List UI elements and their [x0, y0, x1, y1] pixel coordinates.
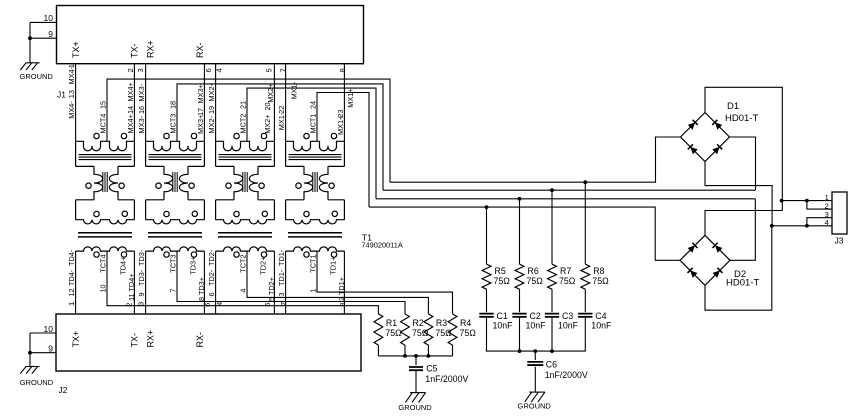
polarity dot T1 col3 TCT — [234, 252, 239, 257]
svg-text:R2: R2 — [413, 318, 424, 328]
wire J3 pin4 — [772, 225, 832, 227]
polarity dot T1 col2 secondary right — [192, 211, 197, 216]
svg-text:RX-: RX- — [195, 42, 205, 58]
wire MCT4 center tap (T1 pin 15) — [107, 79, 390, 182]
wire J3 pin1 — [782, 200, 832, 202]
polarity dot choke col1 right — [119, 183, 124, 188]
ground (J1) — [20, 63, 39, 70]
svg-text:8 TD3+: 8 TD3+ — [197, 277, 206, 301]
svg-text:9: 9 — [48, 29, 53, 39]
wire R8 to C4 — [584, 289, 586, 312]
svg-text:75Ω: 75Ω — [527, 276, 544, 286]
resistor R5 — [486, 207, 488, 264]
wire TD3+ (T1 pin 8 to J2 pin 6) — [203, 251, 205, 314]
transformer T1 section 4 core — [289, 154, 342, 156]
wire MX4- (J1 pin 1 to T1 pin 13) — [75, 64, 77, 142]
svg-text:TX+: TX+ — [71, 41, 81, 58]
svg-text:10: 10 — [99, 284, 108, 292]
svg-text:15: 15 — [99, 101, 108, 109]
svg-text:4: 4 — [239, 289, 248, 293]
wire MX2- (J1 pin 4 to T1 pin 19) — [215, 64, 217, 142]
diode D1 bottom-left — [688, 144, 698, 154]
svg-text:10: 10 — [44, 324, 54, 334]
svg-text:16: 16 — [137, 106, 146, 114]
common-mode choke col3 right winding — [249, 166, 258, 199]
polarity dot T1 col3 secondary left — [234, 211, 239, 216]
wire J3 pin3 — [807, 218, 832, 226]
transformer T1 section 2 secondary core — [148, 232, 202, 234]
common-mode choke col3 core — [242, 172, 244, 192]
svg-text:MX1-: MX1- — [277, 112, 286, 130]
svg-text:9: 9 — [137, 292, 146, 296]
svg-text:2 TD1+: 2 TD1+ — [337, 277, 346, 301]
polarity dot choke col3 left — [226, 183, 231, 188]
capacitor C5 — [415, 356, 417, 365]
junction J1 pin9/bus — [28, 36, 32, 40]
wire C3 to rail — [551, 318, 553, 351]
svg-text:TD3+: TD3+ — [188, 257, 197, 275]
polarity dot T1 col1 secondary right — [122, 211, 127, 216]
svg-text:MX3+: MX3+ — [196, 115, 205, 134]
svg-text:TD3-: TD3- — [137, 269, 146, 286]
diode D1 top-right — [712, 120, 722, 130]
svg-text:TCT1: TCT1 — [309, 254, 318, 272]
svg-text:10: 10 — [44, 13, 54, 23]
svg-text:1: 1 — [309, 289, 318, 293]
wire C6 to ground — [534, 367, 536, 392]
transformer T1 section 1 secondary winding — [76, 247, 135, 251]
svg-text:10nF: 10nF — [526, 321, 547, 331]
transformer T1 section 1 secondary box — [76, 199, 94, 201]
wire TCT3 center tap (T1 pin 7) — [177, 251, 405, 314]
wire J2 ground bus — [29, 333, 31, 367]
svg-text:MCT1: MCT1 — [309, 114, 318, 134]
transformer T1 section 2 secondary box — [146, 199, 164, 201]
polarity dot T1 col1 TCT — [94, 252, 99, 257]
common-mode choke col2 left winding — [164, 166, 173, 199]
svg-text:TX+: TX+ — [71, 331, 81, 348]
junction rail/R3 — [427, 354, 431, 358]
J2 pin 10 stub — [30, 332, 56, 334]
wire TD2- (T1 pin 6 to J2 pin 4) — [215, 251, 217, 314]
common-mode choke col1 right winding — [109, 166, 118, 199]
common-mode choke col1 left winding — [94, 166, 103, 199]
diode bridge D2 outline — [680, 235, 730, 285]
svg-text:4: 4 — [825, 218, 829, 227]
wire D1 minus — [705, 162, 772, 226]
svg-text:2: 2 — [126, 68, 135, 72]
ground (C6) — [525, 392, 545, 402]
svg-text:C2: C2 — [530, 311, 541, 321]
svg-text:6: 6 — [204, 68, 213, 72]
diode D1 top-left — [688, 120, 698, 130]
junction rail/C5 — [414, 354, 418, 358]
junction J3 pins 3-4 — [805, 224, 809, 228]
resistor R6 — [519, 199, 521, 264]
svg-text:MX2-: MX2- — [207, 115, 216, 133]
svg-text:GROUND: GROUND — [20, 72, 54, 81]
svg-text:TD2-: TD2- — [207, 249, 216, 266]
wire TD4- (T1 pin 12 to J2 pin 1) — [75, 251, 77, 314]
polarity dot T1 col2 tap — [164, 133, 169, 138]
capacitor C3 — [545, 313, 559, 315]
polarity dot T1 col3 TD+ — [261, 252, 266, 257]
transformer T1 section 4 secondary box — [286, 199, 304, 201]
junction rail/R6 — [518, 349, 522, 353]
svg-text:4: 4 — [215, 68, 224, 72]
wire D1 right to MCT3 — [730, 137, 756, 190]
junction D1+/J3 — [780, 199, 784, 203]
svg-text:75Ω: 75Ω — [592, 276, 609, 286]
transformer T1 section 2 secondary winding — [146, 247, 205, 251]
junction J2 pin9/bus — [28, 351, 32, 355]
resistor R2 — [401, 314, 410, 345]
svg-text:TD3-: TD3- — [137, 249, 146, 266]
wire R6 to C2 — [519, 289, 521, 312]
svg-text:MX4+: MX4+ — [126, 114, 135, 133]
polarity dot T1 col1 tap — [94, 133, 99, 138]
capacitor C1 — [479, 313, 493, 315]
svg-text:5: 5 — [264, 68, 273, 72]
polarity dot T1 col2 TCT — [164, 252, 169, 257]
svg-text:7: 7 — [169, 289, 178, 293]
transformer T1 section 4 secondary core — [288, 232, 342, 234]
wire TD1- (T1 pin 3 to J2 pin 7) — [285, 251, 287, 314]
polarity dot T1 col2 + — [191, 133, 196, 138]
svg-text:17: 17 — [196, 108, 205, 116]
wire J1 ground bus — [29, 22, 31, 62]
J2 pin 9 stub — [30, 352, 56, 354]
diode bridge D1 outline — [681, 113, 730, 162]
svg-text:GROUND: GROUND — [518, 401, 552, 410]
polarity dot choke col2 right — [189, 183, 194, 188]
polarity dot choke col1 left — [86, 183, 91, 188]
svg-text:D1: D1 — [727, 101, 739, 112]
svg-text:MX3-: MX3- — [137, 115, 146, 133]
wire MCT3 center tap (T1 pin 18) — [177, 84, 383, 190]
svg-text:7: 7 — [278, 68, 287, 72]
common-mode choke col4 core — [312, 172, 314, 192]
polarity dot T1 col1 + — [121, 133, 126, 138]
wire MCT3 line to D1 right drop — [383, 189, 756, 191]
transformer T1 section 1 primary winding — [76, 141, 135, 150]
svg-text:1nF/2000V: 1nF/2000V — [425, 374, 468, 384]
svg-text:TD1-: TD1- — [277, 269, 286, 286]
svg-text:TD4+: TD4+ — [118, 257, 127, 275]
svg-text:MCT3: MCT3 — [169, 114, 178, 134]
transformer T1 section 4 primary winding — [286, 141, 345, 150]
wire TD1+ (T1 pin 2 to J2 pin 8) — [343, 251, 345, 314]
svg-text:24: 24 — [309, 101, 318, 109]
wire C4 to rail — [584, 318, 586, 351]
junction MCT3/R7 — [550, 188, 554, 192]
transformer T1 section 3 secondary core — [218, 232, 272, 234]
wire MCT1 center tap (T1 pin 24) — [317, 93, 369, 208]
wire TCT1 center tap (T1 pin 1) — [317, 251, 453, 314]
svg-text:18: 18 — [169, 101, 178, 109]
diode D1 bottom-right — [712, 144, 722, 154]
transformer T1 section 2 core — [149, 154, 202, 156]
svg-text:MX3+: MX3+ — [196, 84, 205, 103]
polarity dot choke col3 right — [259, 183, 264, 188]
wire MX3+ (J1 pin 6 to T1 pin 17) — [203, 64, 205, 142]
wire C2 to rail — [519, 318, 521, 351]
svg-text:6: 6 — [207, 292, 216, 296]
polarity dot T1 col4 tap — [304, 133, 309, 138]
polarity dot choke col4 right — [329, 183, 334, 188]
common-mode choke col4 left winding — [304, 166, 313, 199]
junction J3 pins 1-2 — [805, 199, 809, 203]
svg-text:6: 6 — [203, 303, 212, 307]
svg-text:C5: C5 — [426, 364, 437, 374]
wire R3 to rail — [427, 345, 429, 356]
svg-text:GROUND: GROUND — [398, 403, 432, 412]
polarity dot T1 col2 secondary left — [164, 211, 169, 216]
svg-text:TD2-: TD2- — [207, 269, 216, 286]
transformer T1 section 2 box — [145, 141, 147, 166]
svg-text:3: 3 — [137, 302, 146, 306]
svg-text:1nF/2000V: 1nF/2000V — [545, 370, 588, 380]
svg-text:MX3-: MX3- — [137, 83, 146, 101]
capacitor C4 — [578, 313, 592, 315]
transformer T1 section 3 box — [215, 141, 217, 166]
wire MX2+ (J1 pin 5 to T1 pin 20) — [273, 64, 275, 142]
svg-text:J1: J1 — [57, 90, 66, 100]
svg-text:J3: J3 — [835, 235, 844, 245]
wire MX4+ (J1 pin 2 to T1 pin 14) — [133, 64, 135, 142]
svg-text:C6: C6 — [546, 360, 557, 370]
resistor R3 — [424, 314, 433, 345]
svg-text:749020011A: 749020011A — [361, 240, 402, 249]
polarity dot T1 col3 tap — [234, 133, 239, 138]
diode D2 bottom-left — [688, 268, 698, 278]
svg-text:R6: R6 — [528, 266, 539, 276]
wire D2 minus — [705, 226, 772, 310]
junction rail/C6 — [533, 349, 537, 353]
svg-text:TCT3: TCT3 — [169, 254, 178, 272]
transformer T1 section 3 inner winding — [216, 220, 275, 224]
svg-text:RX+: RX+ — [146, 330, 156, 348]
svg-text:R1: R1 — [386, 318, 397, 328]
svg-text:10nF: 10nF — [558, 321, 579, 331]
common-mode choke col1 core — [102, 172, 104, 192]
junction rail/R2 — [403, 354, 407, 358]
transformer T1 section 3 core — [219, 154, 272, 156]
polarity dot choke col2 left — [156, 183, 161, 188]
svg-text:R7: R7 — [560, 266, 571, 276]
capacitor C6 — [534, 351, 536, 360]
resistor R7 — [551, 190, 553, 264]
svg-text:19: 19 — [207, 106, 216, 114]
junction D1-,D2-/J3 — [770, 224, 774, 228]
diode D2 bottom-right — [712, 268, 722, 278]
polarity dot T1 col4 secondary left — [304, 211, 309, 216]
wire J3 pin2 — [807, 201, 832, 210]
junction MCT2/R6 — [518, 197, 522, 201]
connector J3 — [832, 192, 847, 234]
svg-text:MCT2: MCT2 — [239, 114, 248, 134]
transformer T1 section 3 primary winding — [216, 141, 275, 150]
wire MCT2 center tap (T1 pin 21) — [247, 88, 376, 199]
svg-text:14: 14 — [126, 106, 135, 114]
resistor R4 — [448, 314, 457, 345]
diode D2 top-right — [713, 243, 723, 253]
transformer T1 section 1 core — [79, 154, 132, 156]
svg-text:3: 3 — [136, 68, 145, 72]
svg-text:TCT2: TCT2 — [239, 254, 248, 272]
svg-text:MX4-: MX4- — [67, 66, 76, 84]
svg-text:12: 12 — [67, 288, 76, 296]
polarity dot T1 col4 TD+ — [331, 252, 336, 257]
svg-text:TD1-: TD1- — [277, 249, 286, 266]
svg-text:R5: R5 — [495, 266, 506, 276]
polarity dot T1 col1 TD+ — [121, 252, 126, 257]
junction MCT1/R5 — [485, 205, 489, 209]
resistor R1 — [374, 314, 383, 345]
svg-text:TX-: TX- — [130, 333, 140, 348]
svg-text:MX2+: MX2+ — [266, 83, 275, 102]
polarity dot T1 col1 secondary left — [94, 211, 99, 216]
wire TCT4 center tap (T1 pin 10) — [107, 251, 378, 314]
junction MCT4/R8 — [583, 180, 587, 184]
wire R2 to rail — [404, 345, 406, 356]
wire R5 to C1 — [486, 289, 488, 312]
svg-text:J2: J2 — [58, 385, 67, 395]
wire D2 right to MCT2 — [730, 199, 755, 260]
svg-text:8: 8 — [338, 68, 347, 72]
svg-text:MX4-: MX4- — [67, 101, 76, 119]
wire TD3- (T1 pin 9 to J2 pin 3) — [145, 251, 147, 314]
svg-text:R4: R4 — [460, 318, 471, 328]
svg-text:23: 23 — [336, 110, 345, 118]
transformer T1 section 1 inner winding — [76, 220, 135, 224]
svg-text:R8: R8 — [593, 266, 604, 276]
svg-text:RX-: RX- — [195, 332, 205, 348]
svg-text:HD01-T: HD01-T — [726, 278, 759, 289]
svg-text:MX1-: MX1- — [290, 81, 299, 99]
wire R4 to rail — [452, 345, 454, 356]
wire MX3- (J1 pin 3 to T1 pin 16) — [145, 64, 147, 142]
svg-text:5: 5 — [263, 303, 272, 307]
svg-text:MX4+: MX4+ — [126, 82, 135, 101]
svg-text:4: 4 — [215, 302, 224, 306]
J1 pin 10 stub — [30, 21, 57, 23]
diode D2 top-left — [687, 243, 697, 253]
svg-text:75Ω: 75Ω — [385, 328, 402, 338]
svg-text:75Ω: 75Ω — [559, 276, 576, 286]
common-mode choke col2 core — [172, 172, 174, 192]
svg-text:GROUND: GROUND — [20, 378, 54, 387]
wire MCT1 line to D2 left — [369, 207, 680, 260]
svg-text:MX2-: MX2- — [207, 83, 216, 101]
svg-text:11 TD4+: 11 TD4+ — [127, 273, 136, 301]
wire C1 to rail — [486, 318, 488, 351]
polarity dot T1 col4 secondary right — [332, 211, 337, 216]
svg-text:TD4-: TD4- — [67, 269, 76, 286]
polarity dot T1 col4 TCT — [304, 252, 309, 257]
svg-text:10nF: 10nF — [493, 321, 514, 331]
common-mode choke col4 right winding — [319, 166, 328, 199]
svg-text:C1: C1 — [497, 311, 508, 321]
transformer T1 section 4 inner winding — [286, 220, 345, 224]
transformer T1 section 4 box — [285, 141, 287, 166]
svg-text:1: 1 — [67, 302, 76, 306]
svg-text:21: 21 — [239, 101, 248, 109]
svg-text:7: 7 — [279, 302, 288, 306]
wire C1-C4 bottom rail — [486, 350, 586, 352]
svg-text:10nF: 10nF — [591, 321, 612, 331]
svg-text:13: 13 — [67, 90, 76, 98]
ground (C5) — [405, 393, 425, 403]
J1 pin 9 stub — [30, 37, 57, 39]
svg-text:TD2+: TD2+ — [258, 257, 267, 275]
polarity dot T1 col2 TD+ — [191, 252, 196, 257]
common-mode choke col2 right winding — [179, 166, 188, 199]
svg-text:75Ω: 75Ω — [460, 328, 477, 338]
polarity dot choke col4 left — [296, 183, 301, 188]
polarity dot T1 col3 + — [261, 133, 266, 138]
wire R1-R4 bottom rail — [378, 355, 452, 357]
svg-text:C3: C3 — [562, 311, 573, 321]
junction rail/R7 — [550, 349, 554, 353]
transformer T1 section 1 box — [75, 141, 77, 166]
svg-text:TCT4: TCT4 — [99, 254, 108, 272]
transformer T1 section 4 secondary winding — [286, 247, 345, 251]
polarity dot T1 col3 secondary right — [262, 211, 267, 216]
svg-text:MX1+: MX1+ — [346, 88, 355, 107]
svg-text:MCT4: MCT4 — [99, 114, 108, 134]
wire MX1- (J1 pin 7 to T1 pin 22) — [285, 64, 287, 142]
svg-text:75Ω: 75Ω — [494, 276, 511, 286]
svg-text:R3: R3 — [436, 318, 447, 328]
wire R7 to C3 — [551, 289, 553, 312]
wire C5 to ground — [415, 370, 417, 392]
svg-text:RX+: RX+ — [146, 40, 156, 58]
transformer T1 section 1 secondary core — [78, 232, 132, 234]
connector J1 — [57, 6, 364, 64]
wire D1 plus rail — [705, 87, 782, 235]
svg-text:9: 9 — [48, 344, 53, 354]
connector J2 — [56, 314, 361, 371]
wire TD2+ (T1 pin 5 to J2 pin 5) — [273, 251, 275, 314]
svg-text:22: 22 — [277, 106, 286, 114]
wire MCT2 line to D2 right riser — [376, 198, 755, 200]
svg-text:3: 3 — [277, 292, 286, 296]
svg-text:TD4-: TD4- — [67, 249, 76, 266]
svg-text:8: 8 — [338, 303, 347, 307]
svg-text:C4: C4 — [595, 311, 606, 321]
svg-text:TD1+: TD1+ — [328, 257, 337, 275]
wire TCT2 center tap (T1 pin 4) — [247, 251, 428, 314]
transformer T1 section 3 secondary winding — [216, 247, 275, 251]
common-mode choke col3 left winding — [234, 166, 243, 199]
svg-text:HD01-T: HD01-T — [725, 113, 758, 124]
capacitor C2 — [512, 313, 526, 315]
wire R1 to rail — [377, 345, 379, 356]
transformer T1 section 2 primary winding — [146, 141, 205, 150]
svg-text:TX-: TX- — [130, 43, 140, 58]
svg-text:MX2+: MX2+ — [263, 115, 272, 134]
transformer T1 section 2 inner winding — [146, 220, 205, 224]
wire TD4+ (T1 pin 11 to J2 pin 2) — [133, 251, 135, 314]
wire MX1+ (J1 pin 8 to T1 pin 23) — [343, 64, 345, 142]
transformer T1 section 3 secondary box — [216, 199, 234, 201]
resistor R8 — [584, 182, 586, 264]
wire MCT4 line to D1 left — [390, 137, 681, 182]
ground (J2) — [20, 367, 39, 374]
polarity dot T1 col4 + — [331, 133, 336, 138]
